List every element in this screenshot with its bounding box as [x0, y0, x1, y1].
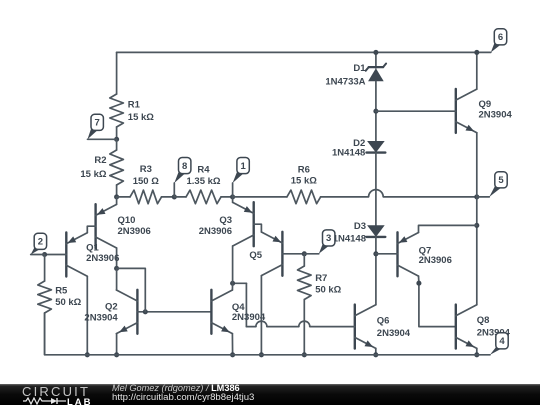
svg-text:1N4733A: 1N4733A — [325, 77, 365, 88]
wire D2 to D3 — [375, 153, 377, 226]
svg-text:2N3904: 2N3904 — [479, 110, 513, 121]
node flag8 junction — [172, 194, 177, 199]
node flag1 junction — [230, 194, 235, 199]
svg-text:R4: R4 — [197, 165, 210, 176]
svg-text:2N3906: 2N3906 — [118, 226, 151, 237]
node Q6 emitter — [373, 352, 378, 357]
svg-text:50 kΩ: 50 kΩ — [315, 285, 341, 296]
resistor R1 15 kΩ — [110, 52, 154, 139]
svg-text:D3: D3 — [354, 221, 366, 232]
svg-text:1.35 kΩ: 1.35 kΩ — [186, 176, 220, 187]
wire Q3 collector down — [232, 246, 234, 283]
wire Q9 base — [376, 110, 456, 112]
node Q7 emitter junction — [474, 223, 479, 228]
svg-text:R1: R1 — [128, 100, 141, 111]
node flag 2 — [31, 233, 47, 254]
svg-text:R6: R6 — [298, 165, 310, 176]
node Q5 base / R7 / flag3 — [302, 251, 307, 256]
logo LAB text — [67, 397, 93, 405]
node Q1 collector rail — [85, 352, 90, 357]
wire D1 to D2 — [375, 81, 377, 141]
transistor Q9 2N3904 — [456, 89, 513, 133]
wire hop over Q5 collector — [256, 321, 267, 327]
svg-text:Q1: Q1 — [86, 243, 99, 254]
svg-text:D1: D1 — [353, 63, 366, 74]
svg-text:Q3: Q3 — [219, 215, 232, 226]
resistor R7 50 kΩ — [298, 254, 342, 355]
svg-text:6: 6 — [498, 32, 503, 43]
wire Q7 emitter up — [419, 225, 477, 232]
resistor R6 15 kΩ — [233, 165, 369, 204]
wire Q5 base — [282, 253, 304, 255]
zener diode D1 1N4733A — [325, 63, 386, 88]
svg-text:2N3906: 2N3906 — [86, 253, 119, 264]
node between R1 and R2 — [114, 137, 119, 142]
svg-text:1N4148: 1N4148 — [333, 234, 366, 245]
wire Q2 emitter to rail — [116, 334, 118, 355]
node top rail / Q9 — [474, 50, 479, 55]
svg-text:50 kΩ: 50 kΩ — [55, 297, 81, 308]
svg-text:5: 5 — [498, 175, 504, 186]
svg-text:R3: R3 — [140, 164, 152, 175]
wire Q4 collector up — [231, 283, 233, 290]
node flag 5 — [477, 172, 507, 197]
node Q8 emitter — [474, 352, 479, 357]
wire Q1 base — [45, 254, 67, 256]
wire right column mid to Q7 emitter node — [476, 197, 478, 226]
node flag 3 — [304, 230, 335, 254]
wire Q6 base — [246, 326, 354, 328]
wire top rail to D1 — [375, 52, 377, 68]
svg-text:Q6: Q6 — [377, 316, 390, 327]
node flag 7 — [88, 114, 117, 139]
wire rail R6 to right column — [383, 196, 477, 198]
svg-text:R2: R2 — [94, 155, 106, 166]
transistor Q10 2N3906 — [96, 204, 151, 248]
svg-text:Q2: Q2 — [105, 302, 118, 313]
wire Q5 collector down to rail — [260, 276, 262, 355]
node Q4 emitter rail — [230, 352, 235, 357]
transistor Q5 — [249, 232, 282, 276]
transistor Q7 2N3906 — [398, 232, 452, 276]
wire Q3/Q4 collector to Q6 base — [233, 282, 247, 284]
svg-text:15 kΩ: 15 kΩ — [128, 112, 154, 123]
svg-text:15 kΩ: 15 kΩ — [291, 176, 317, 187]
svg-text:1: 1 — [240, 161, 246, 172]
svg-text:2N3904: 2N3904 — [377, 328, 411, 339]
wire hop over diode column — [369, 190, 384, 197]
wire Q6 emitter to rail — [375, 348, 377, 354]
node Q2 emitter rail — [114, 352, 119, 357]
transistor Q1 2N3906 — [66, 233, 119, 277]
transistor Q4 2N3904 — [211, 290, 265, 334]
node R7 rail — [302, 352, 307, 357]
wire Q6 base riser — [245, 283, 247, 326]
svg-text:2: 2 — [38, 237, 43, 248]
wire ground return rail — [45, 313, 490, 355]
wire Q1 collector down to rail — [86, 276, 88, 355]
wire hop over R7 — [299, 321, 310, 327]
node flag 6 — [491, 29, 507, 53]
svg-text:3: 3 — [326, 233, 331, 244]
svg-text:Q8: Q8 — [477, 315, 490, 326]
wire Q7 collector down to Q8 base — [419, 276, 456, 327]
node top rail / D1 — [373, 50, 378, 55]
transistor Q8 2N3904 — [456, 305, 511, 349]
footer bar — [0, 384, 540, 405]
wire Q4 emitter to rail — [231, 334, 233, 355]
svg-text:Q10: Q10 — [118, 215, 136, 226]
wire Q8 emitter to ground rail — [476, 348, 478, 354]
transistor Q3 2N3906 — [199, 202, 254, 246]
wire Q7 base from D3 node — [376, 253, 398, 255]
svg-text:4: 4 — [499, 336, 505, 347]
wire mirror input riser — [117, 268, 146, 311]
resistor R3 150 Ω — [117, 164, 175, 204]
wire Q3 base to Q5 emitter — [254, 224, 262, 232]
diode D2 1N4148 — [332, 138, 385, 159]
url line — [112, 392, 254, 403]
transistor Q2 2N3904 — [84, 290, 137, 334]
node flag 4 — [490, 333, 508, 355]
svg-text:2N3906: 2N3906 — [419, 255, 452, 266]
svg-text:15 kΩ: 15 kΩ — [80, 169, 106, 180]
diode D3 1N4148 — [333, 221, 386, 245]
transistor Q6 2N3904 — [355, 305, 411, 349]
node Q7 collector — [416, 281, 421, 286]
node flag 1 — [233, 158, 250, 197]
svg-text:150 Ω: 150 Ω — [133, 176, 159, 187]
wire Q2 collector up — [116, 268, 118, 290]
wire Q2-Q4 base tie — [137, 311, 211, 313]
svg-text:Q5: Q5 — [249, 250, 262, 261]
wire top supply rail — [117, 51, 491, 53]
node D1-D2 / Q9 base — [373, 109, 378, 114]
node Q10 collector — [114, 266, 119, 271]
wire Q10 base step — [87, 226, 95, 233]
node flag2 junction — [42, 252, 47, 257]
wire Q3 emitter to rail node — [232, 197, 234, 203]
wire right column down to Q8 collector — [476, 225, 478, 304]
svg-text:1N4148: 1N4148 — [332, 148, 365, 159]
svg-text:8: 8 — [182, 161, 187, 172]
CircuitLab logo text — [22, 384, 90, 399]
svg-text:R7: R7 — [315, 273, 327, 284]
node Q5 collector rail — [259, 352, 264, 357]
svg-text:Q9: Q9 — [479, 99, 492, 110]
node rail left — [114, 194, 119, 199]
node Q3-Q4 collectors — [230, 281, 235, 286]
node rail right — [474, 194, 479, 199]
author line — [112, 383, 240, 393]
node D3 / Q7 base — [373, 251, 378, 256]
resistor R4 1.35 kΩ — [174, 165, 232, 204]
resistor R2 15 kΩ — [80, 139, 123, 197]
svg-text:2N3906: 2N3906 — [199, 226, 232, 237]
svg-text:Q4: Q4 — [232, 302, 245, 313]
wire right column Q9 emitter down — [476, 133, 478, 197]
wire Q9 collector to top rail — [476, 52, 478, 89]
svg-text:7: 7 — [95, 118, 100, 129]
svg-text:R5: R5 — [55, 286, 68, 297]
resistor R5 50 kΩ — [38, 255, 82, 355]
wire Q10 emitter to rail — [116, 197, 118, 205]
logo squiggle resistor-diode — [23, 397, 69, 405]
wire D3 to Q6 collector — [375, 237, 377, 305]
wire Q10 collector down — [116, 248, 118, 268]
svg-text:2N3904: 2N3904 — [84, 313, 118, 324]
node flag 8 — [174, 158, 191, 197]
node base tie / mirror input — [143, 309, 148, 314]
